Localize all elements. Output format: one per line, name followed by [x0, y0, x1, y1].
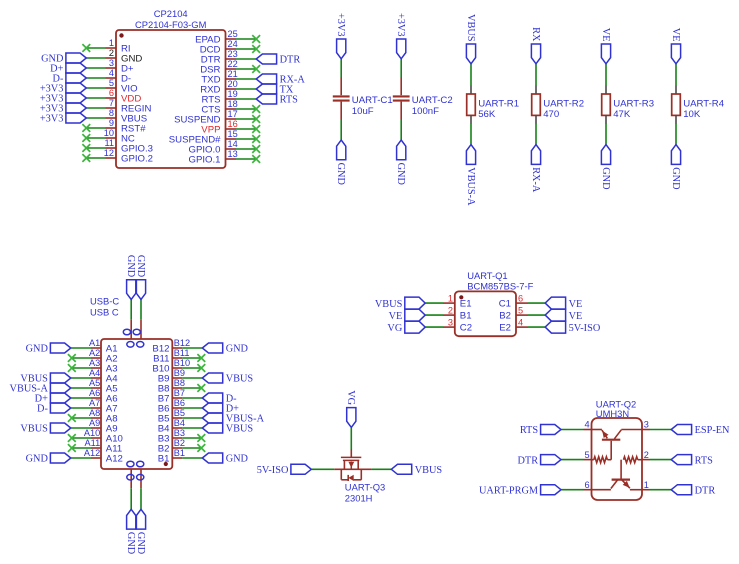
UART-Q1 pin 2 B1	[425, 305, 471, 321]
CP2104 pin 13 GPIO.1	[189, 149, 261, 165]
svg-text:4: 4	[518, 317, 523, 327]
svg-text:GND: GND	[226, 344, 249, 355]
svg-text:13: 13	[228, 149, 238, 159]
ground GND below UART-C2	[395, 140, 406, 185]
svg-text:GND: GND	[335, 163, 346, 186]
transistor Q1 UART-Q1 BCM857BS-7-F body	[455, 270, 534, 336]
svg-text:USB-C: USB-C	[90, 296, 119, 307]
svg-text:B8: B8	[174, 378, 185, 388]
global label GND (USB-C A1)	[26, 343, 71, 355]
svg-text:DTR: DTR	[695, 485, 716, 496]
USB-C pin A5 (left)	[71, 378, 118, 394]
CP2104 pin 1 RI	[82, 38, 130, 54]
USB-C pin A9 (left)	[71, 418, 118, 434]
svg-text:VG: VG	[387, 323, 402, 334]
CP2104 pin 5 VIO	[86, 78, 137, 94]
svg-text:GND: GND	[125, 255, 136, 278]
svg-text:UART-R3: UART-R3	[613, 99, 654, 110]
svg-text:B3: B3	[174, 428, 185, 438]
net label VG (Q1 pin 3)	[387, 321, 425, 334]
ground GND below UART-C1	[335, 140, 346, 185]
net label VBUS (Q3 drain)	[391, 464, 442, 476]
global label RX-A (CP2104 pin 21)	[256, 74, 305, 86]
svg-text:VBUS: VBUS	[465, 14, 476, 42]
USB-C pin B3 (right)	[158, 428, 205, 444]
CP2104 pin 23 DTR	[201, 49, 256, 65]
svg-text:56K: 56K	[478, 109, 496, 120]
CP2104 pin 10 NC	[82, 128, 135, 144]
UART-Q2 internal top transistor	[592, 430, 643, 460]
resistor UART-R1 56K	[467, 64, 519, 145]
resistor UART-R2 470	[532, 64, 584, 145]
svg-text:100nF: 100nF	[412, 106, 439, 117]
USB-C pin B2 (right)	[158, 438, 205, 454]
CP2104 pin 2 GND	[86, 48, 142, 64]
svg-text:5: 5	[584, 450, 589, 460]
USB-C pin A3 (left)	[68, 358, 118, 374]
CP2104 pin 14 GPIO.0	[189, 139, 261, 155]
svg-text:A11: A11	[85, 438, 101, 448]
global label GND (CP2104 pin 2)	[41, 53, 86, 65]
svg-text:B1: B1	[174, 448, 185, 458]
USB-C pin A12 (left)	[71, 448, 123, 464]
CP2104 pin 12 GPIO.2	[82, 148, 153, 164]
svg-text:RTS: RTS	[695, 455, 714, 466]
svg-text:D-: D-	[37, 404, 48, 415]
power +3V3 above UART-C2	[395, 13, 406, 59]
global label GND (USB-C B12)	[202, 343, 248, 355]
USB-C pin A4 (left)	[71, 368, 118, 384]
svg-text:VG: VG	[345, 390, 356, 405]
svg-text:8: 8	[109, 108, 114, 118]
svg-text:BCM857BS-7-F: BCM857BS-7-F	[467, 280, 533, 291]
net label RTS (Q2 pin 4)	[520, 425, 561, 437]
svg-text:B7: B7	[174, 388, 185, 398]
CP2104 pin 18 CTS	[201, 99, 260, 115]
svg-text:7: 7	[109, 98, 114, 108]
svg-text:2: 2	[448, 305, 453, 315]
UART-Q2 internal resistor (pin 5)	[592, 457, 612, 463]
global label VBUS (USB-C B9)	[202, 373, 253, 385]
svg-text:16: 16	[228, 119, 238, 129]
svg-text:RX-A: RX-A	[530, 167, 541, 193]
global label +3V3 (CP2104 pin 6)	[40, 93, 86, 105]
global label VBUS-A (USB-C A5)	[10, 383, 71, 395]
svg-text:UART-R4: UART-R4	[683, 99, 725, 110]
USB-C pin B9 (right)	[158, 368, 203, 384]
CP2104 pin 4 D-	[86, 68, 131, 84]
svg-text:GND: GND	[26, 344, 49, 355]
capacitor UART-C1 10uF	[333, 59, 393, 140]
USB-C pin A11 (left)	[68, 438, 122, 454]
IC U1 CP2104 body	[116, 8, 226, 168]
global label +3V3 (CP2104 pin 8)	[40, 113, 86, 125]
USB-C shield pin S1 (top)	[123, 300, 134, 348]
svg-text:GPIO.2: GPIO.2	[121, 153, 153, 164]
svg-text:B1: B1	[460, 310, 472, 321]
svg-text:UART-R2: UART-R2	[543, 99, 584, 110]
CP2104 pin 6 VDD	[86, 88, 141, 104]
svg-text:ESP-EN: ESP-EN	[695, 425, 730, 436]
USB-C pin A10 (left)	[68, 428, 123, 444]
UART-Q2 pin 5	[561, 450, 592, 460]
global label TX (CP2104 pin 20)	[256, 84, 294, 96]
svg-text:A2: A2	[89, 348, 100, 358]
UART-Q2 pin 6	[561, 480, 592, 490]
wire VG to Q3 gate	[350, 427, 352, 449]
svg-text:6: 6	[584, 480, 589, 490]
CP2104 pin 7 REGIN	[86, 98, 151, 114]
svg-text:GND: GND	[600, 167, 611, 190]
svg-text:VBUS-A: VBUS-A	[465, 167, 476, 206]
global label VBUS (USB-C A4)	[20, 373, 70, 385]
svg-text:11: 11	[104, 138, 114, 148]
svg-text:VBUS: VBUS	[415, 465, 443, 476]
USB-C pin A6 (left)	[71, 388, 118, 404]
svg-text:5V-ISO: 5V-ISO	[257, 465, 289, 476]
CP2104 pin 19 RTS	[201, 89, 256, 105]
UART-Q1 pin 4 E2	[499, 317, 545, 333]
ground GND above USB-C S2	[135, 255, 146, 300]
svg-text:B12: B12	[174, 338, 190, 348]
UART-Q1 pin 1 E1	[425, 293, 471, 309]
global label +3V3 (CP2104 pin 7)	[40, 103, 86, 115]
global label GND (USB-C B1)	[202, 453, 248, 465]
CP2104 pin 25 EPAD	[195, 29, 260, 45]
connector J1 USB-C body	[90, 296, 172, 470]
svg-text:3: 3	[109, 58, 114, 68]
svg-text:5: 5	[109, 78, 114, 88]
svg-text:UART-R1: UART-R1	[478, 99, 519, 110]
global label GND (USB-C A12)	[26, 453, 71, 465]
wire Q3 to VBUS	[371, 468, 391, 470]
svg-text:25: 25	[228, 29, 238, 39]
svg-text:5: 5	[518, 305, 523, 315]
svg-text:E2: E2	[499, 322, 511, 333]
global label RTS (CP2104 pin 19)	[256, 94, 298, 106]
net label RX-A below UART-R2	[530, 145, 541, 193]
USB-C pin B5 (right)	[158, 408, 203, 424]
svg-text:2: 2	[644, 450, 649, 460]
CP2104 pin 8 VBUS	[86, 108, 147, 124]
UART-Q2 pin 1	[642, 480, 671, 490]
svg-text:6: 6	[518, 293, 523, 303]
USB-C pin B10 (right)	[152, 358, 205, 374]
svg-text:+3V3: +3V3	[395, 13, 406, 37]
svg-text:3: 3	[448, 317, 453, 327]
svg-text:A12: A12	[84, 448, 100, 458]
CP2104 pin 24 DCD	[200, 39, 260, 55]
svg-text:1: 1	[109, 38, 114, 48]
USB-C shield pin S4 (bottom)	[137, 461, 144, 509]
CP2104 pin 16 VPP	[201, 119, 260, 135]
svg-text:A6: A6	[89, 388, 100, 398]
svg-text:A10: A10	[84, 428, 100, 438]
UART-Q1 pin 6 C1	[499, 293, 545, 309]
svg-text:B9: B9	[174, 368, 185, 378]
svg-text:VBUS: VBUS	[375, 299, 403, 310]
CP2104 pin 21 TXD	[201, 69, 256, 85]
global label D+ (USB-C B6)	[202, 403, 239, 415]
svg-text:B11: B11	[174, 348, 190, 358]
svg-text:10K: 10K	[683, 109, 701, 120]
USB-C pin B1 (right)	[158, 448, 203, 464]
svg-text:UART-PRGM: UART-PRGM	[479, 485, 538, 496]
svg-text:E1: E1	[460, 298, 472, 309]
svg-text:4: 4	[109, 68, 114, 78]
net label VE (Q1 pin 6)	[545, 297, 582, 310]
net label VE above UART-R4	[670, 28, 681, 64]
svg-text:UMH3N: UMH3N	[596, 408, 629, 419]
svg-text:A4: A4	[89, 368, 100, 378]
net label VE above UART-R3	[600, 28, 611, 64]
USB-C pin B8 (right)	[158, 378, 205, 394]
capacitor UART-C2 100nF	[393, 59, 453, 140]
svg-text:15: 15	[228, 129, 238, 139]
svg-text:5V-ISO: 5V-ISO	[569, 323, 601, 334]
svg-text:A9: A9	[89, 418, 100, 428]
svg-text:DTR: DTR	[517, 455, 538, 466]
CP2104 pin 15 SUSPEND#	[169, 129, 260, 145]
svg-text:10uF: 10uF	[352, 106, 374, 117]
USB-C pin A1 (left)	[71, 338, 118, 354]
svg-text:GND: GND	[135, 532, 146, 555]
svg-text:C1: C1	[499, 298, 511, 309]
net label GND below UART-R4	[670, 145, 681, 190]
svg-text:VE: VE	[569, 299, 583, 310]
svg-text:1: 1	[644, 480, 649, 490]
USB-C pin A2 (left)	[68, 348, 118, 364]
global label VBUS-A (USB-C B5)	[202, 413, 264, 425]
svg-text:GND: GND	[26, 454, 49, 465]
svg-text:GND: GND	[226, 454, 249, 465]
svg-text:RTS: RTS	[520, 425, 539, 436]
UART-Q1 pin 3 C2	[425, 317, 472, 333]
svg-text:23: 23	[228, 49, 238, 59]
svg-text:24: 24	[228, 39, 238, 49]
net label DTR (Q2 pin 1)	[671, 485, 715, 497]
resistor UART-R4 10K	[672, 64, 725, 145]
USB-C pin A8 (left)	[68, 408, 118, 424]
USB-C shield pin S3 (bottom)	[127, 461, 134, 509]
svg-text:4: 4	[584, 420, 589, 430]
svg-text:A8: A8	[89, 408, 100, 418]
net label 5V-ISO (Q3 source)	[257, 464, 312, 476]
svg-text:470: 470	[543, 109, 559, 120]
svg-text:RTS: RTS	[280, 95, 299, 106]
CP2104 pin 17 SUSPEND	[174, 109, 260, 125]
svg-text:A12: A12	[106, 453, 123, 464]
svg-text:VE: VE	[670, 28, 681, 42]
svg-text:A3: A3	[89, 358, 100, 368]
svg-text:A7: A7	[89, 398, 100, 408]
UART-Q2 pin 4	[561, 420, 592, 430]
svg-text:VE: VE	[600, 28, 611, 42]
USB-C pin B6 (right)	[158, 398, 203, 414]
global label D+ (CP2104 pin 3)	[50, 63, 86, 75]
svg-text:6: 6	[109, 88, 114, 98]
resistor UART-R3 47K	[602, 64, 654, 145]
svg-text:GPIO.1: GPIO.1	[189, 154, 221, 165]
svg-text:B6: B6	[174, 398, 185, 408]
svg-text:3: 3	[644, 420, 649, 430]
USB-C pin A7 (left)	[71, 398, 118, 414]
svg-text:A1: A1	[89, 338, 100, 348]
svg-text:C2: C2	[460, 322, 472, 333]
svg-text:14: 14	[228, 139, 238, 149]
global label D- (CP2104 pin 4)	[53, 73, 87, 85]
svg-text:B2: B2	[499, 310, 511, 321]
ground GND below USB-C S4	[135, 509, 146, 554]
svg-text:12: 12	[104, 148, 114, 158]
CP2104 pin 9 RST#	[82, 118, 146, 134]
svg-text:B10: B10	[174, 358, 190, 368]
svg-text:VBUS: VBUS	[226, 424, 254, 435]
global label D- (USB-C A7)	[37, 403, 71, 415]
UART-Q2 pin 3	[642, 420, 671, 430]
UART-Q2 pin 2	[642, 450, 671, 460]
svg-text:UART-Q3: UART-Q3	[345, 481, 385, 492]
svg-text:B1: B1	[158, 453, 170, 464]
svg-text:9: 9	[109, 118, 114, 128]
svg-text:UART-C2: UART-C2	[412, 95, 453, 106]
UART-Q2 internal resistor (pin 2)	[621, 457, 642, 479]
svg-text:+3V3: +3V3	[335, 13, 346, 37]
svg-text:VE: VE	[569, 311, 583, 322]
global label DTR (CP2104 pin 23)	[256, 54, 300, 66]
transistor Q2 UART-Q2 UMH3N body	[592, 399, 643, 500]
wire 5V-ISO to Q3	[311, 468, 334, 470]
svg-text:VE: VE	[389, 311, 403, 322]
power +3V3 above UART-C1	[335, 13, 346, 59]
ground GND below USB-C S3	[125, 509, 136, 554]
svg-text:21: 21	[228, 69, 238, 79]
svg-text:RX: RX	[530, 27, 541, 42]
svg-text:USB C: USB C	[90, 307, 119, 318]
svg-text:22: 22	[228, 59, 238, 69]
global label +3V3 (CP2104 pin 5)	[40, 83, 86, 95]
net label VE (Q1 pin 2)	[389, 309, 426, 322]
UART-Q1 pin 5 B2	[499, 305, 545, 321]
USB-C pin B12 (right)	[152, 338, 202, 354]
CP2104 pin 20 RXD	[200, 79, 256, 95]
net label VE (Q1 pin 5)	[545, 309, 582, 322]
transistor Q3 UART-Q3 2301H MOSFET symbol	[334, 449, 385, 503]
svg-text:A5: A5	[89, 378, 100, 388]
net label UART-PRGM (Q2 pin 6)	[479, 485, 561, 497]
net label RTS (Q2 pin 2)	[671, 455, 713, 467]
svg-text:+3V3: +3V3	[40, 114, 64, 125]
svg-text:GND: GND	[670, 167, 681, 190]
svg-text:2301H: 2301H	[345, 492, 373, 503]
svg-text:GND: GND	[395, 163, 406, 186]
svg-text:UART-C1: UART-C1	[352, 95, 393, 106]
svg-text:B2: B2	[174, 438, 185, 448]
svg-text:10: 10	[104, 128, 114, 138]
UART-Q2 internal bottom transistor	[592, 480, 643, 490]
USB-C pin B4 (right)	[158, 418, 203, 434]
USB-C shield pin S2 (top)	[133, 300, 144, 348]
net label VG (Q3 gate)	[345, 390, 356, 427]
global label D+ (USB-C A6)	[35, 393, 71, 405]
svg-text:1: 1	[448, 293, 453, 303]
svg-text:VBUS: VBUS	[20, 424, 48, 435]
svg-text:47K: 47K	[613, 109, 631, 120]
net label DTR (Q2 pin 5)	[517, 455, 561, 467]
svg-text:B4: B4	[174, 418, 185, 428]
svg-text:CP2104-F03-GM: CP2104-F03-GM	[135, 19, 207, 30]
USB-C pin B11 (right)	[153, 348, 205, 364]
svg-text:20: 20	[228, 79, 238, 89]
svg-text:VBUS: VBUS	[226, 374, 254, 385]
net label GND below UART-R3	[600, 145, 611, 190]
CP2104 pin 3 D+	[86, 58, 134, 74]
svg-text:GND: GND	[125, 532, 136, 555]
ground GND above USB-C S1	[125, 255, 136, 300]
net label VBUS-A below UART-R1	[465, 145, 476, 206]
svg-text:2: 2	[109, 48, 114, 58]
net label RX above UART-R2	[530, 27, 541, 64]
USB-C pin B7 (right)	[158, 388, 203, 404]
global label VBUS (USB-C B4)	[202, 423, 253, 435]
svg-text:17: 17	[228, 109, 238, 119]
CP2104 pin 11 GPIO.3	[82, 138, 153, 154]
global label D- (USB-C B7)	[202, 393, 237, 405]
svg-text:B5: B5	[174, 408, 185, 418]
svg-text:GND: GND	[135, 255, 146, 278]
net label VBUS (Q1 pin 1)	[375, 297, 425, 310]
svg-text:CP2104: CP2104	[154, 8, 188, 19]
svg-text:18: 18	[228, 99, 238, 109]
svg-text:DTR: DTR	[280, 55, 301, 66]
svg-text:19: 19	[228, 89, 238, 99]
net label 5V-ISO (Q1 pin 4)	[545, 321, 601, 334]
net label ESP-EN (Q2 pin 3)	[671, 425, 730, 437]
CP2104 pin 22 DSR	[200, 59, 260, 75]
net label VBUS above UART-R1	[465, 14, 476, 64]
global label VBUS (USB-C A9)	[20, 423, 70, 435]
